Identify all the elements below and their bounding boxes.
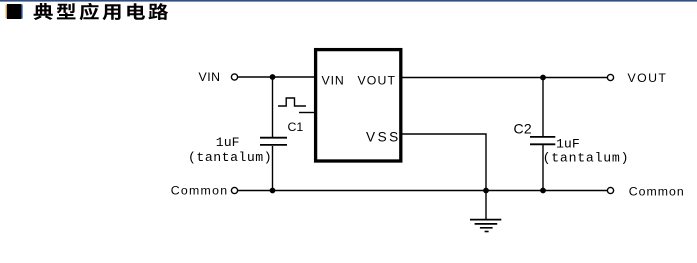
IC U1 bbox=[316, 50, 401, 161]
wire VIN junction down to C1 bbox=[272, 77, 274, 137]
terminal Common left bbox=[231, 187, 237, 193]
svg-text:1uF: 1uF bbox=[556, 137, 580, 152]
junction C2/rail bbox=[540, 188, 546, 194]
svg-text:VIN: VIN bbox=[199, 70, 221, 84]
terminal Common right bbox=[607, 187, 613, 193]
svg-text:1uF: 1uF bbox=[216, 135, 240, 150]
svg-text:VOUT: VOUT bbox=[628, 71, 668, 85]
pulse waveform symbol bbox=[278, 98, 306, 106]
section marker square bbox=[6, 5, 8, 19]
capacitor C2 bbox=[530, 137, 555, 144]
wire C1 to common rail bbox=[272, 146, 274, 191]
junction VSS/rail bbox=[483, 188, 489, 194]
wire VOUT junction down to C2 bbox=[542, 78, 544, 137]
svg-text:C1: C1 bbox=[288, 120, 304, 134]
svg-text:VSS: VSS bbox=[366, 130, 401, 145]
ground bbox=[470, 220, 501, 232]
svg-text:Common: Common bbox=[629, 185, 685, 199]
wire C2 to common rail bbox=[542, 145, 544, 191]
common rail bbox=[238, 190, 607, 192]
capacitor C1 bbox=[260, 138, 287, 145]
svg-text:(tantalum): (tantalum) bbox=[543, 151, 630, 166]
terminal VIN bbox=[231, 74, 237, 80]
svg-text:C2: C2 bbox=[514, 121, 533, 137]
wire VIN terminal to U1 bbox=[238, 76, 315, 78]
junction VIN/C1 bbox=[270, 74, 276, 80]
junction C1/rail bbox=[270, 188, 276, 194]
pin stub ON/OFF bbox=[299, 112, 315, 114]
wire VOUT pin to terminal bbox=[402, 77, 607, 79]
svg-text:Common: Common bbox=[171, 184, 229, 198]
terminal VOUT bbox=[607, 74, 613, 80]
junction VOUT/C2 bbox=[540, 75, 546, 81]
svg-text:(tantalum): (tantalum) bbox=[188, 150, 272, 165]
svg-text:VOUT: VOUT bbox=[358, 74, 397, 88]
wire VSS pin right then down to rail bbox=[402, 134, 486, 191]
header rule bbox=[0, 0, 697, 2]
svg-text:VIN: VIN bbox=[322, 74, 345, 88]
title 典型应用电路 bbox=[34, 3, 169, 20]
wire rail to ground bbox=[485, 191, 487, 220]
